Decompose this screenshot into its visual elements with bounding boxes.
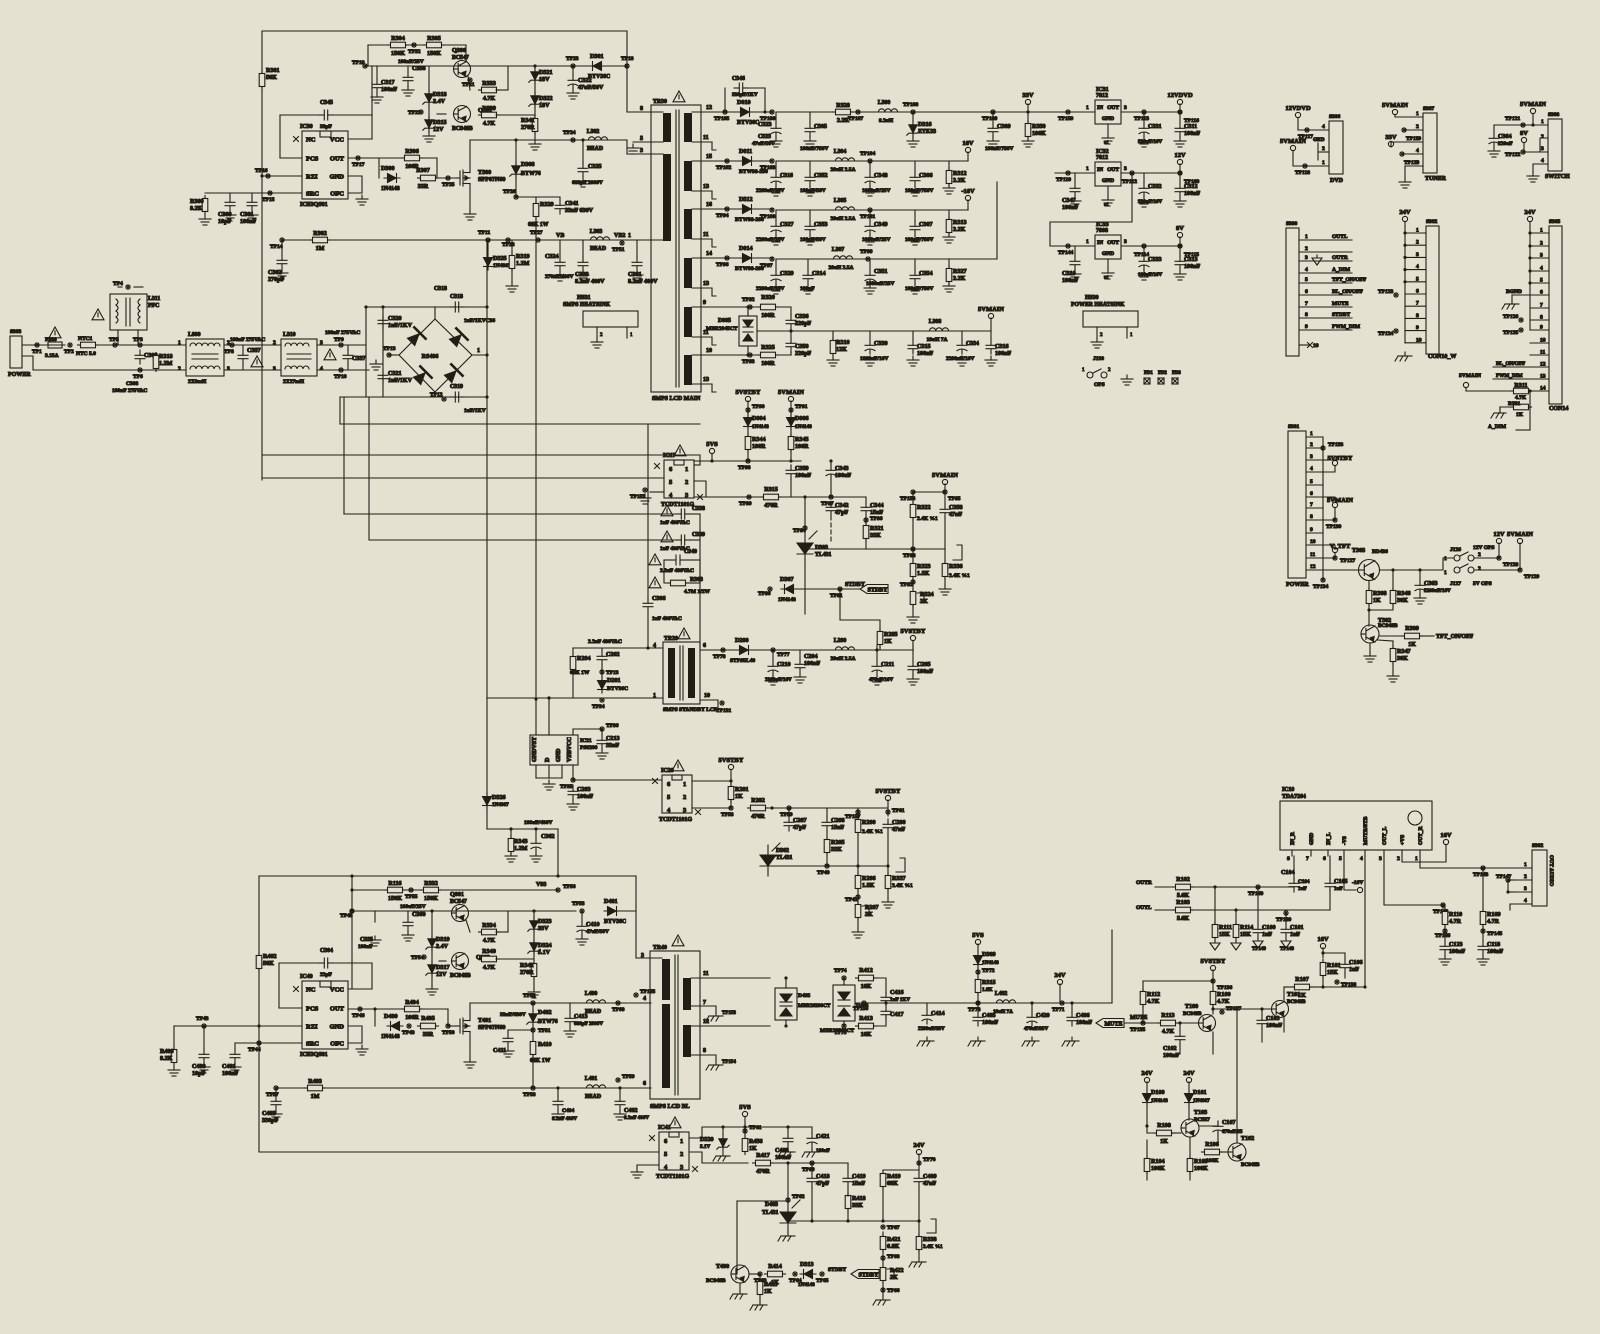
warning symbol [649,554,661,565]
test point TP2 [68,343,72,347]
wire [790,329,792,338]
svg-text:TP94: TP94 [716,213,729,219]
wire [1214,887,1216,924]
test point TP57 [274,1086,278,1090]
terminal 8V [1177,232,1182,237]
junction [350,888,353,891]
ground [1138,270,1150,280]
test point TP65 [820,1272,824,1276]
ground [505,852,517,862]
svg-text:8: 8 [640,106,643,112]
wire [691,1025,770,1027]
wire [948,259,950,268]
svg-text:TP136: TP136 [1217,985,1233,991]
wire [917,593,924,602]
ground [229,1063,241,1073]
svg-text:MBR20200CT: MBR20200CT [798,1003,831,1009]
wire [1515,891,1532,893]
wire [535,217,537,699]
resistor R329 [533,201,539,220]
svg-text:SPP07N60: SPP07N60 [478,177,505,183]
terminal -16V [1357,887,1362,892]
wire [407,911,409,917]
svg-text:220pF: 220pF [795,321,812,327]
svg-text:1: 1 [1524,862,1527,868]
terminal 8V [1521,137,1526,142]
svg-text:C319: C319 [450,384,463,390]
ground [909,284,921,294]
wire [865,516,867,524]
wire [351,876,353,989]
wire [1310,850,1312,856]
svg-text:1uF: 1uF [1334,886,1343,892]
svg-text:-16V: -16V [961,188,975,195]
svg-text:47pF: 47pF [793,825,806,831]
diode D101 [1185,1090,1194,1106]
svg-text:20uH 2.5A: 20uH 2.5A [830,167,855,173]
test point TP94 [725,207,729,211]
svg-text:TP55: TP55 [405,894,418,900]
svg-text:33K: 33K [852,1203,863,1209]
test point TP73 [976,1001,980,1005]
wire [768,865,888,867]
wire [469,140,471,164]
svg-text:STDBY: STDBY [858,1273,879,1279]
ground [770,235,782,245]
ground [276,269,288,279]
wire [759,1274,761,1281]
capacitor C202 [597,651,607,665]
resistor R312 [946,168,952,187]
inductor [832,158,857,161]
svg-text:C340: C340 [684,549,697,555]
terminal 5VMAIN [1530,108,1535,113]
svg-text:3: 3 [1310,454,1313,460]
wire [1515,903,1532,905]
svg-text:PCS: PCS [306,1006,319,1013]
svg-text:TP119: TP119 [1406,136,1421,142]
svg-text:7812: 7812 [1096,155,1108,161]
zener D321 [529,68,541,84]
svg-text:TP2: TP2 [64,349,74,355]
svg-text:R342: R342 [520,963,534,969]
svg-text:C345: C345 [320,100,333,106]
svg-text:24V: 24V [1183,1070,1195,1077]
svg-text:R312: R312 [953,171,967,177]
transistor T103 [1181,1119,1199,1137]
resistor R328 [833,109,854,115]
svg-text:BGND: BGND [1506,289,1522,295]
svg-text:BC848B: BC848B [706,1278,726,1284]
capacitor C347 [1070,183,1080,197]
svg-text:R345: R345 [795,437,809,443]
svg-text:TP86: TP86 [870,516,883,522]
svg-text:T401: T401 [478,1018,491,1024]
capacitor C322 [568,75,578,89]
wire [251,193,253,197]
wire [1493,366,1530,368]
svg-text:R331: R331 [1508,401,1520,407]
svg-text:C356: C356 [412,66,426,72]
capacitor C313 [1175,256,1185,270]
resistor R300 [202,196,208,215]
junction [1178,1021,1181,1024]
capacitor C359 [786,465,796,479]
wire [1404,233,1406,343]
wire [689,1127,745,1138]
svg-text:10: 10 [704,693,710,699]
wire [1306,484,1323,486]
svg-text:GND: GND [1102,251,1114,257]
svg-text:TP65: TP65 [816,1278,829,1284]
ground [554,271,566,281]
svg-text:L307: L307 [832,247,845,253]
junction [1403,280,1406,283]
connector S308 [1548,119,1562,171]
test point TP22 [419,110,423,114]
zener D320 [717,1135,729,1151]
svg-text:4: 4 [1524,898,1527,904]
wire [912,650,914,661]
wire [262,454,700,456]
wire [692,208,772,210]
wire [1121,111,1180,113]
wire [278,963,280,1008]
svg-text:DVD: DVD [1330,178,1344,184]
resistor R318 [153,353,159,372]
wire [918,1221,920,1236]
wire [1318,151,1329,153]
wire [1107,186,1109,196]
test point TP75 [842,1024,846,1028]
svg-text:TP43: TP43 [196,1016,209,1022]
svg-text:TCDT1101G: TCDT1101G [656,1174,689,1180]
wire [692,160,772,162]
svg-text:TP56: TP56 [563,884,576,890]
svg-text:6: 6 [1323,856,1326,862]
svg-text:TP153: TP153 [722,1011,736,1016]
wire [1508,879,1515,881]
resistor R112 [1140,989,1146,1008]
junction [743,1125,746,1128]
wire [1220,1151,1228,1153]
svg-text:T300: T300 [478,170,491,176]
svg-text:3: 3 [1416,252,1419,258]
test point TP50 [446,1024,450,1028]
svg-text:R456: R456 [749,1139,763,1145]
test point TP82 [911,580,915,584]
svg-text:T100: T100 [1185,1004,1198,1010]
signal ground [1253,938,1263,948]
capacitor C118 [1478,941,1488,955]
resistor R338 [916,1234,922,1253]
svg-text:TP25: TP25 [442,182,455,188]
terminal 5VSTBY [1332,460,1337,465]
wire [431,911,433,985]
svg-text:TFT_ON/OFF: TFT_ON/OFF [1332,277,1367,283]
svg-text:1K: 1K [735,794,743,800]
svg-text:C359: C359 [795,466,809,472]
terminal V_TFT [1332,547,1337,552]
svg-text:SRC: SRC [306,191,319,198]
wire [366,306,487,308]
transistor T302 [1361,625,1379,643]
svg-text:68K 1W: 68K 1W [528,222,549,228]
ground [1102,134,1114,144]
wire [1343,850,1345,856]
ground [596,749,608,759]
svg-text:100nF: 100nF [1163,1053,1180,1059]
capacitor C417 [881,1006,891,1020]
svg-text:1000uF/16V: 1000uF/16V [860,356,888,362]
wire [332,114,372,116]
line filter L800 [186,339,224,376]
junction [1321,985,1324,988]
wire [1530,257,1549,259]
test point TP45 [350,909,354,913]
test point TP69 [810,1161,814,1165]
svg-text:L800: L800 [188,332,201,338]
test point TP34 [600,698,604,702]
svg-text:TP17: TP17 [352,162,365,168]
svg-text:R108: R108 [1157,1123,1171,1129]
ground [631,271,643,281]
wire [1369,643,1371,652]
wire [235,1042,302,1044]
test point TP160 [1178,171,1182,175]
svg-text:1.2M: 1.2M [516,261,530,267]
capacitor C413 [565,1013,575,1027]
wire [1404,222,1406,233]
svg-text:BC848B: BC848B [1183,1011,1202,1017]
svg-text:56K: 56K [263,961,274,967]
test point TP59 [616,1078,620,1082]
wire [1529,391,1531,430]
wire [573,728,602,730]
test point TP63 [758,1272,762,1276]
wire [98,344,186,346]
svg-text:10K: 10K [861,1032,872,1038]
wire [486,807,488,829]
wire [865,497,867,502]
wire [439,960,446,962]
svg-text:20uH 2.5A: 20uH 2.5A [828,265,853,271]
transformer TR30 [651,105,701,392]
svg-text:5.6K: 5.6K [1177,916,1190,922]
MOSFET T300 [456,164,470,192]
jumper J130 [1082,368,1111,378]
svg-text:10: 10 [706,348,712,354]
svg-text:C346: C346 [732,76,745,82]
capacitor C316 [986,340,996,354]
wire [1299,282,1352,284]
wire [847,1163,849,1173]
svg-text:5VS: 5VS [706,441,718,448]
svg-text:R350: R350 [1032,124,1046,130]
ground [802,284,814,294]
resistor R339 [479,112,500,118]
svg-text:5: 5 [1416,160,1419,166]
wire [776,160,968,162]
wire [874,1016,886,1026]
svg-text:4.7R: 4.7R [1487,919,1500,925]
wire [1512,294,1530,296]
junction [430,909,433,912]
svg-text:D320: D320 [700,1137,714,1143]
svg-text:TP59: TP59 [622,1074,635,1080]
svg-text:24V: 24V [1141,1070,1153,1077]
ground [464,210,476,220]
svg-text:C358: C358 [949,505,963,511]
svg-text:8.2nF 400V: 8.2nF 400V [624,1115,649,1121]
wire [348,1008,448,1010]
wire [1299,329,1352,331]
svg-text:C316: C316 [780,173,793,179]
wire [883,1169,919,1171]
test point TP104 [868,159,872,163]
resistor R419 [880,1171,886,1190]
no-connect [294,987,299,992]
wire [1380,569,1443,571]
svg-text:S303: S303 [10,329,22,335]
svg-text:C312: C312 [1184,184,1198,190]
wire [1306,447,1323,449]
svg-text:4: 4 [320,366,323,372]
junction [1211,1007,1214,1010]
wire [694,496,805,498]
svg-text:C331: C331 [1148,124,1162,130]
svg-text:NC: NC [306,137,316,144]
junction [784,976,787,979]
test point TP74 [842,976,846,980]
svg-text:11: 11 [1540,350,1545,356]
svg-text:TP27: TP27 [530,230,543,236]
wire [948,210,950,219]
wire [376,66,378,79]
svg-text:TP58: TP58 [523,1092,536,1098]
signal ground [1210,940,1220,950]
wire [572,670,574,698]
test point TP99 [747,495,751,499]
wire [1212,970,1214,990]
svg-text:TP92: TP92 [742,297,755,303]
svg-text:OUT AUDIO: OUT AUDIO [1548,855,1554,887]
chassis ground [1062,1037,1079,1046]
junction [260,174,263,177]
capacitor [805,123,815,137]
svg-text:TDA7264: TDA7264 [1282,794,1306,800]
warning symbol [669,1117,681,1128]
svg-text:1N4148: 1N4148 [381,186,400,192]
svg-text:D014: D014 [739,246,753,252]
warning symbol [673,91,685,102]
test point TP46 [358,1007,362,1011]
wire [865,539,867,549]
test point TP125 [1519,328,1523,332]
diode D309 [974,952,983,968]
chassis ground [778,1232,795,1241]
wire [1236,1009,1238,1143]
jumper J127 [1454,564,1474,573]
ground [827,356,839,366]
wire [1107,124,1109,134]
svg-text:5V OPS: 5V OPS [1473,581,1492,587]
test point TP146 [1443,929,1447,933]
wire [879,645,881,650]
svg-text:C320: C320 [388,316,402,322]
svg-text:D325: D325 [493,256,507,262]
svg-text:C333: C333 [1148,257,1162,263]
test point TP105 [723,110,727,114]
svg-text:R321: R321 [870,526,884,532]
svg-text:TP67: TP67 [887,1225,900,1231]
svg-text:2: 2 [1416,124,1419,130]
wire [1179,164,1181,173]
junction [532,909,535,912]
wire [913,491,945,493]
ground [552,1110,564,1120]
wire [466,920,470,932]
test point TP23 [571,64,575,68]
svg-text:1M: 1M [311,1094,320,1100]
wire [368,44,466,46]
svg-text:R116: R116 [388,881,401,887]
wire [790,307,792,315]
warning symbol [661,505,673,516]
svg-text:1K: 1K [1373,598,1381,604]
svg-text:R327: R327 [953,269,967,275]
wire [912,331,914,340]
wire [281,240,283,255]
svg-text:8V: 8V [1520,130,1528,137]
svg-text:1N4007: 1N4007 [493,263,511,269]
wire [496,931,508,933]
svg-text:1: 1 [477,348,480,354]
svg-text:2: 2 [1541,134,1544,140]
wire [203,1026,205,1049]
svg-text:330pF: 330pF [262,1118,279,1124]
ground [943,282,955,292]
svg-text:100nF: 100nF [917,351,934,357]
svg-text:6: 6 [703,643,706,649]
svg-text:TP126: TP126 [1503,314,1519,320]
svg-text:C330: C330 [874,341,888,347]
wire [559,197,561,200]
capacitor C341 [555,200,565,214]
svg-text:R285: R285 [884,632,898,638]
capacitor C323 [771,123,781,137]
wire [826,808,828,817]
wire [692,559,700,561]
capacitor C104 [1289,878,1299,892]
svg-text:TP10: TP10 [334,374,347,380]
wire [689,1152,748,1163]
wire [1419,850,1421,856]
wire [874,978,886,994]
no-connect [655,464,660,469]
no-connect [650,1136,655,1141]
svg-text:C337: C337 [352,356,366,362]
wire [1179,246,1181,256]
wire [368,397,370,539]
wire [1442,905,1444,910]
svg-text:1N4148: 1N4148 [752,424,769,430]
wire [826,853,828,866]
test point TP81 [838,587,842,591]
wire [1188,1082,1190,1090]
test point TP35 [571,778,575,782]
svg-text:OUTL: OUTL [1136,905,1152,911]
